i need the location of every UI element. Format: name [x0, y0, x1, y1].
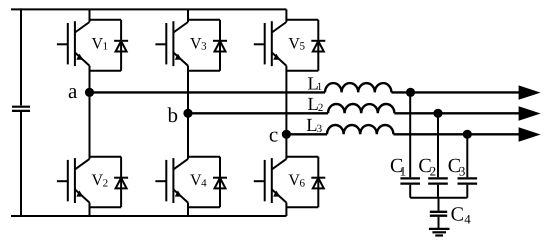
transistor V2: [57, 158, 90, 203]
svg-text:C: C: [451, 203, 464, 225]
wire leg2 collector lead: [187, 9, 189, 22]
wire V3 bottom connector: [188, 70, 220, 72]
capacitor C4: [430, 212, 447, 216]
label V2: [92, 172, 109, 189]
wire phase a line left: [90, 91, 326, 93]
svg-text:c: c: [269, 122, 278, 146]
wire C2 bottom lead: [437, 185, 439, 198]
svg-text:5: 5: [300, 41, 306, 53]
svg-text:2: 2: [103, 178, 109, 190]
wire V6 bottom connector: [286, 206, 318, 208]
capacitor C1: [400, 178, 420, 183]
svg-text:4: 4: [201, 178, 207, 190]
svg-text:3: 3: [201, 41, 207, 53]
wire C3 top lead: [466, 134, 468, 177]
svg-text:a: a: [68, 79, 78, 103]
wire leg3 collector lead: [285, 9, 287, 22]
node c: [282, 130, 291, 139]
label V5: [288, 35, 305, 52]
node line3-C3 junction: [463, 130, 472, 139]
inductor L1: [325, 83, 391, 92]
wire phase c line left: [286, 133, 327, 135]
wire V2 top connector: [90, 156, 122, 158]
wire V1 top connector: [90, 19, 122, 21]
arrow output phase b: [519, 106, 541, 120]
ground: [429, 229, 450, 236]
label L1: [308, 74, 323, 94]
node a: [85, 88, 94, 97]
svg-text:1: 1: [400, 163, 407, 178]
inductor L2: [328, 104, 394, 113]
transistor V3: [155, 21, 188, 66]
wire V5 bottom connector: [286, 70, 318, 72]
wire C2 top lead: [437, 113, 439, 177]
label V3: [190, 35, 207, 52]
label C4: [451, 203, 472, 226]
wire capacitor bus: [410, 197, 467, 199]
wire C4 top lead: [438, 198, 440, 211]
transistor V1: [57, 21, 90, 66]
transistor V4: [155, 158, 188, 203]
wire V1 bottom connector: [90, 70, 122, 72]
wire V5 top connector: [286, 19, 318, 21]
svg-text:1: 1: [317, 81, 323, 93]
wire V4 bottom connector: [188, 206, 220, 208]
top DC rail: [11, 8, 286, 10]
svg-text:1: 1: [103, 41, 109, 53]
capacitor C3: [458, 178, 478, 183]
label C3: [448, 155, 466, 178]
wire node a to V2 collector: [89, 92, 91, 158]
svg-text:2: 2: [318, 102, 324, 114]
wire phase c line right: [393, 133, 519, 135]
diode VD2: [114, 157, 128, 208]
wire left bus lower: [20, 112, 22, 216]
transistor V6: [254, 158, 287, 203]
wire C1 top lead: [409, 92, 411, 177]
wire left bus upper: [20, 8, 22, 105]
diode VD3: [213, 20, 227, 71]
node line1-C1 junction: [406, 88, 415, 97]
wire C3 bottom lead: [466, 185, 468, 198]
wire V6 emitter lead: [285, 203, 287, 216]
diode VD4: [213, 157, 227, 208]
node b: [183, 109, 192, 118]
wire V3 emitter to node b: [187, 66, 189, 114]
wire V3 top connector: [188, 19, 220, 21]
svg-text:3: 3: [317, 123, 323, 135]
label C1: [390, 155, 406, 178]
wire V4 top connector: [188, 156, 220, 158]
svg-text:3: 3: [459, 163, 466, 178]
diode VD1: [114, 20, 128, 71]
wire V2 emitter lead: [89, 203, 91, 216]
svg-text:4: 4: [464, 212, 471, 227]
arrow output phase a: [519, 85, 541, 99]
wire V2 bottom connector: [90, 206, 122, 208]
wire V4 emitter lead: [187, 203, 189, 216]
diode VD6: [311, 157, 325, 208]
wire C1 bottom lead: [409, 185, 411, 198]
label C2: [418, 155, 436, 178]
wire node b to V4 collector: [187, 113, 189, 159]
capacitor Cd dc-link: [12, 107, 30, 111]
label L3: [306, 116, 322, 136]
capacitor C2: [428, 178, 448, 183]
wire phase a line right: [391, 91, 519, 93]
svg-text:2: 2: [430, 163, 437, 178]
arrow output phase c: [519, 127, 541, 141]
wire V1 emitter to node a: [89, 66, 91, 93]
wire V6 top connector: [286, 156, 318, 158]
wire C4 bottom lead: [438, 217, 440, 228]
label L2: [308, 95, 324, 115]
svg-text:6: 6: [300, 178, 306, 190]
transistor V5: [254, 21, 287, 66]
svg-text:b: b: [168, 103, 179, 127]
label V1: [92, 35, 109, 52]
wire phase b line left: [188, 112, 328, 114]
wire phase b line right: [394, 112, 519, 114]
label V6: [288, 172, 305, 189]
wire node c to V6 collector: [285, 134, 287, 159]
wire V5 emitter to node c: [285, 66, 287, 135]
inductor L3: [327, 125, 393, 134]
node line2-C2 junction: [433, 109, 442, 118]
diode VD5: [311, 20, 325, 71]
bottom DC rail: [11, 215, 286, 217]
label V4: [190, 172, 207, 189]
wire leg1 collector lead: [89, 9, 91, 22]
